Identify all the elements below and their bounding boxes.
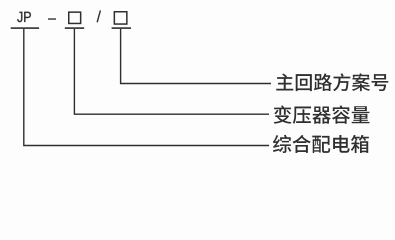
underline under box 1: [65, 27, 84, 29]
leader wire from box 2 to scheme-number label: [121, 29, 271, 84]
underline under box 2: [112, 27, 131, 29]
underline under JP: [11, 27, 39, 29]
placeholder box 1 (transformer capacity digits): [69, 12, 81, 23]
label text 主回路方案号 (main circuit scheme number): [276, 73, 388, 91]
slash separator: [97, 10, 100, 22]
leader wire from box 1 to capacity label: [74, 29, 269, 114]
label text 变压器容量 (transformer capacity): [274, 105, 370, 123]
placeholder box 2 (main circuit scheme digits): [114, 12, 127, 24]
hyphen separator: [48, 18, 56, 19]
leader wire from JP to distribution-box label: [24, 29, 269, 146]
model prefix text "JP": [17, 12, 31, 22]
label text 综合配电箱 (integrated distribution box): [273, 135, 369, 153]
